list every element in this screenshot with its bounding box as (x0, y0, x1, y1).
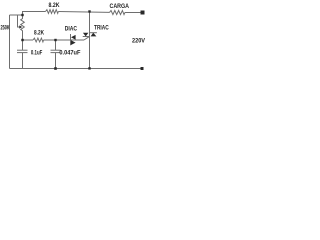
svg-text:TRIAC: TRIAC (94, 25, 109, 32)
svg-text:0.1uF: 0.1uF (31, 49, 43, 56)
svg-text:0.047uF: 0.047uF (59, 50, 80, 57)
svg-text:DIAC: DIAC (65, 26, 78, 33)
svg-text:250K: 250K (1, 25, 11, 32)
svg-text:220V: 220V (132, 38, 146, 45)
svg-text:8.2K: 8.2K (34, 30, 44, 37)
svg-text:8.2K: 8.2K (49, 2, 60, 9)
svg-text:CARGA: CARGA (110, 3, 130, 10)
